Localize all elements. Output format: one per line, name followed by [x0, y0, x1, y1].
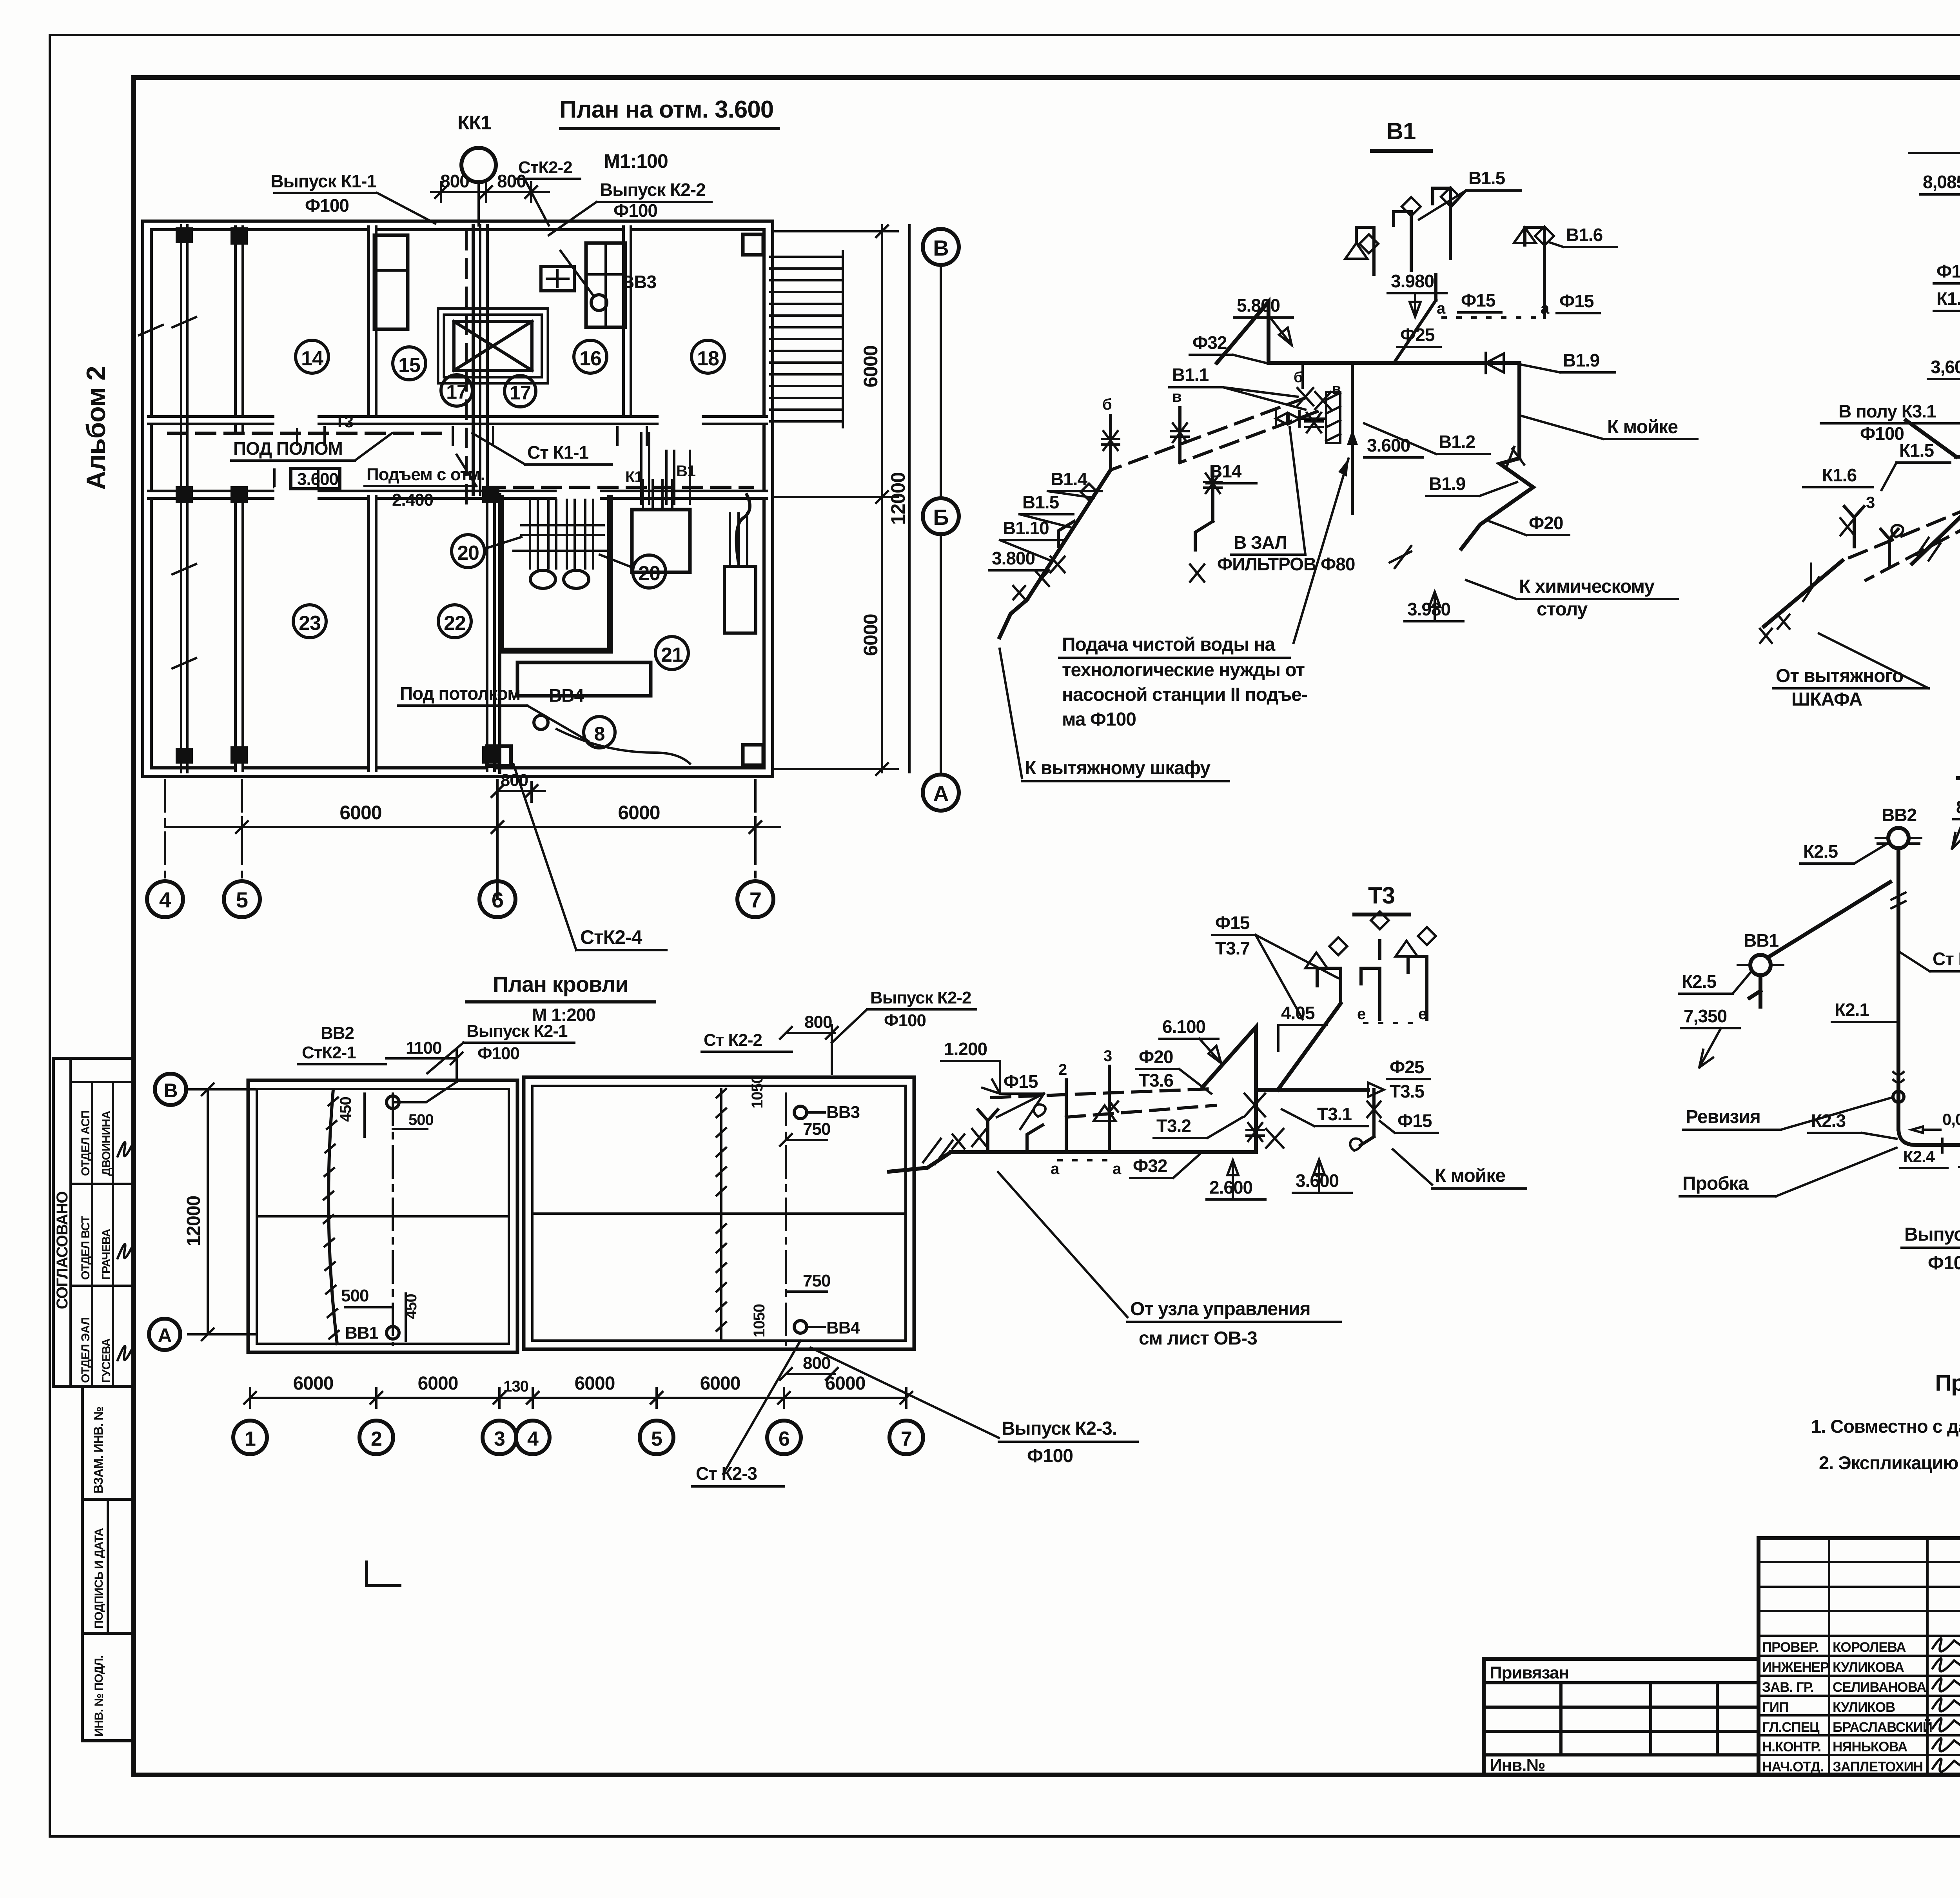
svg-text:В1.10: В1.10 — [1003, 518, 1049, 538]
room circle 22 — [438, 605, 471, 638]
svg-text:б: б — [1294, 369, 1302, 386]
svg-text:В1: В1 — [1387, 118, 1416, 144]
svg-text:6000: 6000 — [825, 1373, 866, 1394]
more faucet hooks top — [1361, 941, 1380, 1019]
svg-text:14: 14 — [301, 347, 323, 370]
stub 2 — [1065, 1080, 1068, 1152]
svg-text:В1.6: В1.6 — [1566, 225, 1602, 245]
svg-text:К2.1: К2.1 — [1835, 1000, 1869, 1020]
svg-text:17: 17 — [510, 382, 531, 404]
left roof section — [248, 1080, 517, 1352]
main pipe horizontal — [1269, 361, 1519, 365]
svg-text:6: 6 — [492, 887, 503, 912]
big triangle — [1203, 1027, 1256, 1087]
svg-text:ВЗАМ. ИНВ. №: ВЗАМ. ИНВ. № — [91, 1407, 105, 1493]
corner L mark — [367, 1562, 400, 1586]
svg-text:см лист ОВ-3: см лист ОВ-3 — [1139, 1328, 1257, 1349]
KK1 stand pipe circle — [461, 148, 496, 182]
corridor pilaster stubs — [274, 427, 647, 487]
curve to room8 — [557, 729, 690, 764]
svg-text:1.200: 1.200 — [944, 1039, 987, 1059]
svg-text:Ф100: Ф100 — [613, 200, 657, 221]
svg-text:6000: 6000 — [618, 802, 660, 824]
wall room15 right — [367, 225, 377, 420]
svg-text:В1.5: В1.5 — [1022, 492, 1059, 512]
svg-text:А: А — [933, 781, 948, 806]
svg-text:8: 8 — [594, 723, 605, 745]
signature squiggles column — [1933, 1639, 1960, 1772]
valley curved line with hatch — [328, 1090, 337, 1344]
svg-text:Ф100: Ф100 — [1027, 1446, 1073, 1466]
junction symbols at center — [1298, 388, 1313, 405]
inv podl box — [82, 1633, 134, 1741]
svg-text:В1.9: В1.9 — [1563, 350, 1599, 370]
svg-text:6000: 6000 — [575, 1373, 615, 1394]
svg-text:В1.2: В1.2 — [1439, 432, 1475, 452]
svg-text:1100: 1100 — [406, 1038, 441, 1058]
svg-text:ОТДЕЛ ВСТ: ОТДЕЛ ВСТ — [79, 1216, 92, 1280]
main horizontal floor line — [1956, 455, 1960, 459]
svg-text:3: 3 — [1103, 1047, 1112, 1065]
svg-text:18: 18 — [697, 347, 719, 370]
svg-text:6000: 6000 — [418, 1373, 458, 1394]
gallery wall left — [180, 225, 182, 772]
svg-text:5: 5 — [651, 1428, 662, 1450]
BB3 stack circle — [794, 1106, 807, 1119]
SEC:ROOFPLAN — [149, 972, 976, 1586]
svg-text:столу: столу — [1537, 599, 1588, 620]
signature squiggles — [118, 1142, 133, 1156]
svg-text:Т3.1: Т3.1 — [1317, 1104, 1352, 1124]
interior wall axis5 vertical — [234, 225, 244, 772]
svg-text:в: в — [1172, 388, 1181, 405]
svg-text:6000: 6000 — [860, 614, 882, 656]
wall room23-22 — [367, 495, 377, 772]
svg-text:6000: 6000 — [700, 1373, 740, 1394]
svg-text:6000: 6000 — [293, 1373, 334, 1394]
svg-text:Т3.7: Т3.7 — [1215, 938, 1250, 958]
room circle 16 — [574, 340, 607, 373]
svg-text:ЗАПЛЕТОХИН: ЗАПЛЕТОХИН — [1833, 1759, 1923, 1775]
svg-text:В1.1: В1.1 — [1172, 365, 1209, 385]
svg-text:Ф15: Ф15 — [1397, 1110, 1432, 1131]
svg-text:Ф20: Ф20 — [1529, 513, 1563, 533]
svg-text:ВВ3: ВВ3 — [621, 272, 656, 292]
svg-text:б: б — [1102, 396, 1112, 413]
BB2 stack circle — [387, 1096, 399, 1109]
dotted e..e — [1364, 1022, 1415, 1024]
left branch to vyt shkaf — [1764, 561, 1842, 626]
svg-text:ВВ1: ВВ1 — [1744, 930, 1779, 951]
svg-text:1. Совместно с данным см. лис: 1. Совместно с данным см. листы ТХ-15:ВК… — [1811, 1416, 1960, 1437]
svg-text:Ф25: Ф25 — [1400, 325, 1435, 345]
svg-text:К мойке: К мойке — [1607, 417, 1678, 437]
svg-text:Инв.№: Инв.№ — [1490, 1756, 1545, 1775]
SEC:B1 — [941, 118, 1697, 781]
svg-text:ВВ3: ВВ3 — [826, 1103, 860, 1122]
svg-text:Ф100: Ф100 — [477, 1044, 519, 1063]
svg-text:Б: Б — [933, 505, 948, 530]
svg-text:ОТДЕЛ АСП: ОТДЕЛ АСП — [79, 1110, 92, 1176]
svg-text:20: 20 — [457, 542, 479, 564]
svg-text:Выпуск К2-3.: Выпуск К2-3. — [1002, 1418, 1117, 1439]
right fixture V1.6 — [1525, 227, 1544, 318]
middle stub pair with valves (V14) — [1211, 466, 1214, 521]
svg-text:500: 500 — [341, 1286, 368, 1305]
svg-text:Ст К2-2: Ст К2-2 — [704, 1031, 762, 1050]
fixtures on branch — [1081, 484, 1097, 500]
svg-text:ПРОВЕР.: ПРОВЕР. — [1762, 1640, 1819, 1655]
dashed diagonal pair — [992, 1089, 1209, 1098]
svg-text:От узла управления: От узла управления — [1130, 1299, 1310, 1319]
svg-text:Ф32: Ф32 — [1192, 332, 1227, 353]
pipe drop at wall 22 — [498, 495, 501, 772]
svg-text:450: 450 — [337, 1097, 354, 1122]
svg-text:ИНЖЕНЕР: ИНЖЕНЕР — [1762, 1660, 1829, 1675]
left break symbol — [889, 1152, 951, 1172]
svg-text:2.400: 2.400 — [392, 490, 433, 510]
svg-text:СтК2-4: СтК2-4 — [580, 926, 642, 948]
svg-text:Ф100: Ф100 — [1928, 1253, 1960, 1274]
svg-text:800: 800 — [501, 771, 528, 790]
room circle 23 — [293, 605, 326, 638]
BB1 — [1750, 955, 1771, 975]
BB4 stack circle — [794, 1321, 807, 1333]
svg-text:Ст К1-1: Ст К1-1 — [527, 442, 589, 463]
revision circle — [1893, 1091, 1904, 1102]
svg-text:Под потолком: Под потолком — [400, 683, 520, 704]
svg-text:6: 6 — [779, 1428, 789, 1450]
SEC:K2 — [1679, 745, 1960, 1276]
svg-text:ВВ2: ВВ2 — [321, 1023, 354, 1043]
svg-text:6000: 6000 — [860, 345, 882, 387]
left fixture stub — [978, 1110, 998, 1152]
right roof section — [524, 1077, 914, 1349]
dotted a..a — [1058, 1159, 1109, 1161]
left dim — [207, 1089, 209, 1334]
faucet group riser up from main — [1394, 300, 1436, 363]
svg-text:ВВ4: ВВ4 — [826, 1318, 860, 1337]
svg-text:3.980: 3.980 — [1391, 271, 1434, 291]
svg-text:1050: 1050 — [749, 1075, 766, 1109]
svg-text:БРАСЛАВСКИЙ: БРАСЛАВСКИЙ — [1833, 1719, 1932, 1735]
stack line left — [392, 1094, 394, 1345]
svg-text:7: 7 — [901, 1428, 912, 1450]
svg-text:750: 750 — [803, 1271, 830, 1290]
svg-text:6000: 6000 — [339, 802, 381, 824]
lower-right branch to chem table — [1461, 458, 1533, 549]
pipes to corridor from tech room — [641, 433, 690, 504]
svg-text:2.600: 2.600 — [1209, 1177, 1252, 1198]
dashed lines to lower-left — [1111, 398, 1305, 470]
stack line right — [785, 1094, 787, 1345]
lower-left diagonal to center — [1912, 456, 1960, 564]
svg-text:ГИП: ГИП — [1762, 1700, 1788, 1715]
svg-text:7: 7 — [750, 887, 761, 912]
privyazan table — [1484, 1659, 1759, 1775]
svg-text:В1: В1 — [676, 463, 696, 480]
lower left branch — [1027, 470, 1111, 600]
BB1 stack circle — [387, 1326, 399, 1339]
axis dim line — [250, 1397, 906, 1399]
right stub down — [1360, 1090, 1374, 1145]
SEC:FLOORPLAN — [139, 96, 959, 950]
columns — [230, 227, 248, 245]
SEC:T3 — [811, 882, 1526, 1466]
svg-text:3.600: 3.600 — [1367, 435, 1410, 455]
svg-text:23: 23 — [299, 612, 321, 635]
room circle 17b — [505, 376, 536, 407]
svg-text:КОРОЛЕВА: КОРОЛЕВА — [1833, 1640, 1906, 1655]
svg-text:16: 16 — [579, 347, 601, 370]
svg-text:ШКАФА: ШКАФА — [1791, 689, 1862, 710]
svg-text:СтК2-1: СтК2-1 — [302, 1043, 356, 1062]
check valve on main — [1486, 353, 1504, 373]
svg-text:К вытяжному шкафу: К вытяжному шкафу — [1025, 758, 1210, 778]
small valve pair left of wall — [1276, 411, 1299, 426]
small plus box — [541, 267, 574, 291]
svg-text:Ф15: Ф15 — [1215, 913, 1250, 933]
tech room walls — [501, 495, 610, 651]
pumps equipment — [514, 500, 610, 568]
svg-text:М1:100: М1:100 — [604, 150, 668, 172]
svg-text:5.800: 5.800 — [1237, 295, 1280, 316]
svg-text:3.800: 3.800 — [992, 548, 1035, 568]
svg-text:е: е — [1357, 1005, 1365, 1023]
room circle 18 — [691, 340, 724, 373]
svg-text:1050: 1050 — [751, 1304, 768, 1337]
svg-text:а: а — [1112, 1160, 1122, 1178]
wall hatch symbol — [1326, 392, 1340, 443]
axis line B1 left — [940, 265, 942, 498]
svg-text:2. Экспликацию помещений см. л: 2. Экспликацию помещений см. лист ТХ-4 — [1819, 1452, 1960, 1473]
SEC:TITLEBLOCK — [1484, 1538, 1960, 1851]
svg-text:Выпуск К2-2: Выпуск К2-2 — [870, 988, 971, 1007]
svg-text:Т3.2: Т3.2 — [1156, 1116, 1191, 1136]
stub 3 — [1108, 1066, 1111, 1152]
svg-text:В1.4: В1.4 — [1051, 469, 1088, 489]
left wall break marks — [139, 317, 196, 668]
svg-text:Примечания: Примечания — [1935, 1370, 1960, 1396]
svg-text:ПОД ПОЛОМ: ПОД ПОЛОМ — [233, 438, 343, 459]
axis circles right — [923, 229, 959, 265]
axis circles bottom — [164, 780, 166, 881]
room circle 21 — [655, 637, 688, 670]
svg-text:В1.5: В1.5 — [1468, 168, 1505, 188]
svg-text:ВВ4: ВВ4 — [549, 685, 584, 706]
small basin right room21 — [632, 510, 690, 572]
svg-text:800: 800 — [804, 1013, 832, 1032]
closet room16 — [586, 243, 625, 327]
svg-text:Ф100: Ф100 — [884, 1011, 926, 1030]
svg-text:В полу К3.1: В полу К3.1 — [1838, 401, 1936, 421]
vzam inv box — [82, 1386, 134, 1499]
dashed branch to lower-left — [1842, 486, 1960, 561]
room circle 15 — [393, 347, 426, 380]
stairs — [770, 251, 843, 427]
svg-text:Ф100: Ф100 — [1936, 261, 1960, 281]
svg-text:К1.6: К1.6 — [1822, 465, 1857, 485]
svg-text:Выпуск К2-1: Выпуск К2-1 — [1904, 1224, 1960, 1245]
svg-text:4: 4 — [159, 887, 171, 912]
stub b — [1109, 416, 1112, 470]
svg-text:Н.КОНТР.: Н.КОНТР. — [1762, 1739, 1821, 1755]
svg-text:СОГЛАСОВАНО: СОГЛАСОВАНО — [54, 1192, 71, 1309]
svg-text:технологические нужды от: технологические нужды от — [1062, 660, 1305, 680]
svg-text:Привязан: Привязан — [1490, 1663, 1569, 1682]
svg-text:а: а — [1437, 300, 1446, 317]
BB4 marker — [534, 715, 548, 729]
svg-text:Т3: Т3 — [335, 412, 353, 431]
room circle 17a — [441, 375, 472, 406]
axis circle B left — [155, 1074, 186, 1105]
svg-text:0,005: 0,005 — [1942, 1110, 1960, 1129]
svg-text:3.600: 3.600 — [297, 470, 338, 489]
svg-text:ИНВ. № ПОДЛ.: ИНВ. № ПОДЛ. — [93, 1655, 105, 1737]
svg-text:2: 2 — [1058, 1061, 1067, 1078]
pump triangle — [1217, 302, 1269, 363]
svg-text:К мойке: К мойке — [1435, 1165, 1505, 1186]
riser pipes bundle — [472, 225, 475, 495]
main horizontal pipe — [951, 1150, 1256, 1154]
bottom bend riser1 — [1898, 1129, 1960, 1145]
svg-text:ма Ф100: ма Ф100 — [1062, 709, 1136, 730]
svg-text:Т3.5: Т3.5 — [1390, 1081, 1424, 1101]
svg-text:ФИЛЬТРОВ Ф80: ФИЛЬТРОВ Ф80 — [1217, 554, 1355, 574]
svg-text:В: В — [933, 236, 948, 260]
svg-text:К1.5: К1.5 — [1899, 440, 1934, 461]
svg-text:Ф15: Ф15 — [1004, 1071, 1038, 1092]
svg-text:Ф25: Ф25 — [1390, 1057, 1424, 1077]
svg-text:В14: В14 — [1209, 461, 1242, 481]
elevator shaft — [441, 312, 545, 380]
K1 V1 dashed corridor lines — [486, 486, 753, 489]
main dim line bottom — [165, 826, 780, 828]
SEC:LEFTSTAMP — [53, 1058, 134, 1741]
BB3 marker — [591, 295, 607, 310]
corridor bottom wall — [147, 490, 768, 500]
outer walls — [147, 225, 768, 772]
room circle 20b — [633, 555, 666, 588]
svg-text:12000: 12000 — [183, 1196, 204, 1246]
left end diagonal — [1906, 420, 1956, 457]
svg-text:4: 4 — [527, 1428, 539, 1450]
svg-text:17: 17 — [446, 381, 467, 403]
svg-text:А: А — [158, 1325, 171, 1346]
svg-text:8.085: 8.085 — [1956, 797, 1960, 817]
dotted a..a line — [1443, 316, 1537, 319]
svg-text:СтК2-2: СтК2-2 — [518, 158, 572, 177]
axis circles 1-7 — [233, 1421, 267, 1454]
svg-text:В1.9: В1.9 — [1429, 474, 1465, 494]
axis circle A left — [149, 1319, 180, 1350]
svg-text:К2.5: К2.5 — [1682, 971, 1716, 992]
svg-text:ВВ1: ВВ1 — [345, 1323, 379, 1343]
svg-text:КУЛИКОВА: КУЛИКОВА — [1833, 1660, 1904, 1675]
svg-text:3,600: 3,600 — [1931, 357, 1960, 377]
svg-text:Ст К2-1: Ст К2-1 — [1933, 949, 1960, 969]
svg-text:ПОДПИСЬ И ДАТА: ПОДПИСЬ И ДАТА — [93, 1528, 105, 1629]
door gaps — [274, 412, 318, 428]
svg-text:В ЗАЛ: В ЗАЛ — [1234, 532, 1287, 553]
closet room15 — [374, 235, 408, 329]
svg-text:Выпуск К1-1: Выпуск К1-1 — [270, 171, 376, 191]
svg-text:Ст К2-3: Ст К2-3 — [696, 1463, 757, 1484]
svg-text:Ф100: Ф100 — [1860, 423, 1904, 444]
room circle 20a — [452, 535, 485, 568]
SEC:NOTES — [1811, 1370, 1960, 1473]
svg-text:КК1: КК1 — [457, 112, 491, 134]
svg-text:Ф100: Ф100 — [305, 195, 349, 216]
svg-text:ВВ2: ВВ2 — [1882, 805, 1916, 825]
svg-text:К химическому: К химическому — [1519, 576, 1655, 597]
svg-text:К2.4: К2.4 — [1903, 1147, 1935, 1166]
room circle 8 — [584, 717, 615, 748]
svg-text:7,350: 7,350 — [1684, 1006, 1727, 1026]
svg-text:Ф32: Ф32 — [1133, 1156, 1167, 1176]
3.600 boxed — [291, 468, 340, 489]
svg-text:План на отм. 3.600: План на отм. 3.600 — [559, 96, 773, 123]
svg-text:СЕЛИВАНОВА: СЕЛИВАНОВА — [1833, 1680, 1926, 1695]
svg-text:22: 22 — [444, 612, 466, 635]
signature table — [1759, 1538, 1960, 1775]
svg-text:Т3: Т3 — [1368, 882, 1395, 909]
dim 800 800 top — [431, 191, 549, 193]
svg-text:2: 2 — [371, 1428, 382, 1450]
svg-text:Ревизия: Ревизия — [1686, 1107, 1760, 1127]
svg-text:3: 3 — [1866, 493, 1875, 512]
dim 800 bottom — [497, 790, 545, 792]
svg-text:НЯНЬКОВА: НЯНЬКОВА — [1833, 1739, 1907, 1755]
foundation rect — [517, 662, 651, 696]
svg-text:5: 5 — [236, 887, 248, 912]
svg-text:К2.5: К2.5 — [1803, 841, 1838, 862]
svg-text:130: 130 — [503, 1378, 528, 1395]
svg-text:ЗАВ. ГР.: ЗАВ. ГР. — [1762, 1680, 1814, 1695]
hatched strip right section — [717, 1089, 726, 1341]
room circle 14 — [296, 340, 328, 373]
svg-text:21: 21 — [661, 644, 683, 666]
svg-text:НАЧ.ОТД.: НАЧ.ОТД. — [1762, 1759, 1824, 1775]
SEC:K1 — [1760, 103, 1960, 710]
svg-text:ГУСЕВА: ГУСЕВА — [100, 1338, 113, 1383]
corridor top wall — [147, 415, 768, 425]
svg-text:а: а — [1051, 1160, 1060, 1178]
stub v — [1178, 408, 1181, 463]
svg-text:Т3.6: Т3.6 — [1139, 1070, 1173, 1091]
right drop V1.9 — [1517, 363, 1521, 458]
podpis data box — [82, 1499, 134, 1633]
right dim lines — [881, 225, 883, 772]
fixtures on dashed branch — [1844, 506, 1864, 547]
svg-text:Подача чистой воды на: Подача чистой воды на — [1062, 634, 1276, 655]
svg-text:Альбом 2: Альбом 2 — [81, 366, 111, 490]
svg-text:От вытяжного: От вытяжного — [1776, 666, 1903, 686]
svg-text:Выпуск К2-2: Выпуск К2-2 — [600, 180, 706, 200]
fixture hooks top cluster — [1356, 227, 1374, 274]
horizontal upper line with arrow — [1256, 1088, 1368, 1092]
svg-text:ОТДЕЛ ЭАЛ: ОТДЕЛ ЭАЛ — [79, 1317, 92, 1383]
wall room22-21 — [486, 495, 496, 772]
svg-text:В: В — [163, 1080, 177, 1101]
svg-text:Ф15: Ф15 — [1461, 290, 1495, 310]
svg-text:Выпуск К2-1: Выпуск К2-1 — [466, 1022, 568, 1041]
svg-text:3: 3 — [494, 1428, 505, 1450]
svg-text:е: е — [1418, 1005, 1426, 1023]
svg-text:Пробка: Пробка — [1682, 1173, 1749, 1194]
svg-text:500: 500 — [408, 1111, 434, 1129]
svg-text:КУЛИКОВ: КУЛИКОВ — [1833, 1700, 1895, 1715]
